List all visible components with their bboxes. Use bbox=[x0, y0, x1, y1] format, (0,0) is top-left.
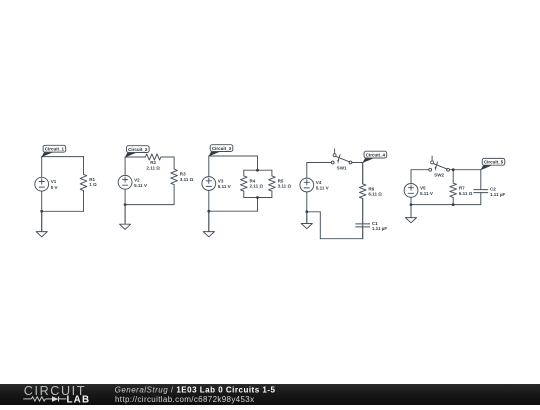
svg-text:V3: V3 bbox=[218, 179, 224, 184]
wire bottom bbox=[42, 210, 84, 212]
svg-text:GeneralStrug / 1E03 Lab 0 Circ: GeneralStrug / 1E03 Lab 0 Circuits 1-5 bbox=[115, 385, 276, 394]
wire bottom rail bbox=[320, 238, 362, 240]
svg-text:V2: V2 bbox=[134, 177, 140, 182]
junction node bottom C4 bbox=[305, 210, 308, 213]
svg-text:SW2: SW2 bbox=[434, 173, 444, 178]
resistor R6 bbox=[359, 163, 382, 239]
svg-text:http://circuitlab.com/c6872k98: http://circuitlab.com/c6872k98y453x bbox=[115, 395, 254, 404]
wire riser bbox=[319, 212, 321, 239]
ground bbox=[301, 212, 312, 229]
svg-text:R5: R5 bbox=[278, 178, 284, 183]
wire V5 bottom to ground bbox=[410, 197, 412, 217]
wire to SW2 pole bbox=[411, 169, 429, 171]
ground bbox=[203, 211, 214, 237]
voltage source V3 bbox=[202, 177, 231, 191]
junction R7 top bbox=[452, 168, 455, 171]
voltage source V5 bbox=[404, 184, 433, 198]
wire bottom bbox=[209, 210, 258, 212]
switch SW2 bbox=[429, 156, 450, 178]
junction R7 bottom bbox=[452, 203, 455, 206]
svg-text:3.11 Ω: 3.11 Ω bbox=[180, 177, 194, 182]
svg-text:R3: R3 bbox=[180, 172, 186, 177]
svg-text:5.11 V: 5.11 V bbox=[316, 186, 329, 191]
svg-text:SW1: SW1 bbox=[337, 166, 347, 171]
wire V3 bottom to ground bbox=[208, 190, 210, 231]
svg-text:1.11 µF: 1.11 µF bbox=[372, 226, 387, 231]
wire V2 top lead bbox=[124, 157, 126, 175]
svg-text:1 Ω: 1 Ω bbox=[89, 182, 97, 187]
logo schematic squiggle: wire, resistor, diode bbox=[23, 396, 66, 401]
junction node bottom C2 bbox=[124, 203, 127, 206]
svg-text:V1: V1 bbox=[51, 179, 57, 184]
wire V5 top lead bbox=[410, 170, 412, 184]
junction parallel top bbox=[256, 169, 259, 172]
svg-text:R7: R7 bbox=[459, 186, 465, 191]
ground bbox=[405, 205, 416, 223]
svg-text:R1: R1 bbox=[89, 177, 95, 182]
svg-text:3.11 Ω: 3.11 Ω bbox=[278, 184, 292, 189]
svg-text:Circuit_2: Circuit_2 bbox=[128, 147, 148, 152]
svg-text:5 V: 5 V bbox=[51, 185, 58, 190]
node flag Circuit_2 bbox=[125, 146, 149, 158]
resistor R3 bbox=[171, 157, 194, 205]
footer bar bbox=[0, 384, 540, 405]
svg-text:2.11 Ω: 2.11 Ω bbox=[146, 165, 160, 170]
wire bottom bbox=[411, 204, 481, 206]
wire V3 top lead bbox=[208, 156, 210, 177]
svg-text:R2: R2 bbox=[150, 160, 156, 165]
wire feed bottom bbox=[257, 198, 259, 212]
voltage source V2 bbox=[118, 175, 147, 189]
wire V4 top lead bbox=[306, 163, 308, 179]
junction node bottom C1 bbox=[40, 210, 43, 213]
capacitor C2 bbox=[474, 170, 506, 205]
wire feed down bbox=[257, 156, 259, 170]
node flag Circuit_3 bbox=[209, 145, 233, 157]
svg-text:R6: R6 bbox=[368, 186, 374, 191]
svg-text:Circuit_5: Circuit_5 bbox=[484, 160, 504, 165]
capacitor C1 bbox=[356, 199, 388, 239]
voltage source V1 bbox=[35, 177, 58, 191]
svg-text:Circuit_1: Circuit_1 bbox=[45, 146, 65, 151]
svg-text:5.11 V: 5.11 V bbox=[134, 183, 147, 188]
wire parallel top rail bbox=[244, 169, 272, 171]
junction node bottom C5 bbox=[410, 203, 413, 206]
wire top bbox=[42, 156, 84, 158]
wire V1 top lead bbox=[41, 157, 43, 178]
node flag Circuit_4 bbox=[362, 151, 386, 163]
wire to source bottom bbox=[307, 211, 321, 213]
ground bbox=[120, 205, 131, 230]
resistor R1 bbox=[80, 157, 97, 212]
voltage source V4 bbox=[300, 178, 329, 192]
svg-text:Circuit_3: Circuit_3 bbox=[212, 146, 232, 151]
wire SW1 to node bbox=[352, 162, 363, 164]
svg-text:V5: V5 bbox=[420, 185, 426, 190]
svg-text:R4: R4 bbox=[250, 178, 256, 183]
resistor R5 bbox=[269, 170, 292, 197]
svg-text:2.11 Ω: 2.11 Ω bbox=[250, 184, 264, 189]
wire V1 bottom to ground bbox=[41, 191, 43, 231]
svg-text:6.11 Ω: 6.11 Ω bbox=[368, 192, 382, 197]
svg-text:Circuit_4: Circuit_4 bbox=[366, 152, 386, 157]
svg-text:6.11 Ω: 6.11 Ω bbox=[459, 191, 473, 196]
wire V2 bottom to ground bbox=[124, 189, 126, 224]
svg-text:5.11 V: 5.11 V bbox=[420, 191, 433, 196]
resistor R4 bbox=[241, 170, 264, 197]
switch SW1 bbox=[331, 149, 352, 171]
wire V4 bottom to ground bbox=[306, 191, 308, 223]
svg-text:1.11 µF: 1.11 µF bbox=[490, 192, 505, 197]
wire top bbox=[209, 155, 258, 157]
junction parallel bottom bbox=[256, 196, 259, 199]
wire bottom bbox=[125, 204, 174, 206]
resistor R2 bbox=[125, 154, 174, 170]
resistor R7 bbox=[450, 170, 473, 205]
wire R6 top lead bbox=[362, 163, 364, 184]
svg-text:LAB: LAB bbox=[67, 395, 91, 405]
junction node bottom C3 bbox=[207, 210, 210, 213]
node flag Circuit_5 bbox=[481, 158, 505, 170]
wire parallel bottom rail bbox=[244, 197, 272, 199]
svg-text:5.11 V: 5.11 V bbox=[218, 184, 231, 189]
node flag Circuit_1 bbox=[41, 145, 65, 157]
wire to SW1 pole bbox=[307, 162, 332, 164]
ground bbox=[36, 211, 47, 237]
svg-text:V4: V4 bbox=[316, 180, 322, 185]
wire SW2 to node bbox=[449, 169, 480, 171]
